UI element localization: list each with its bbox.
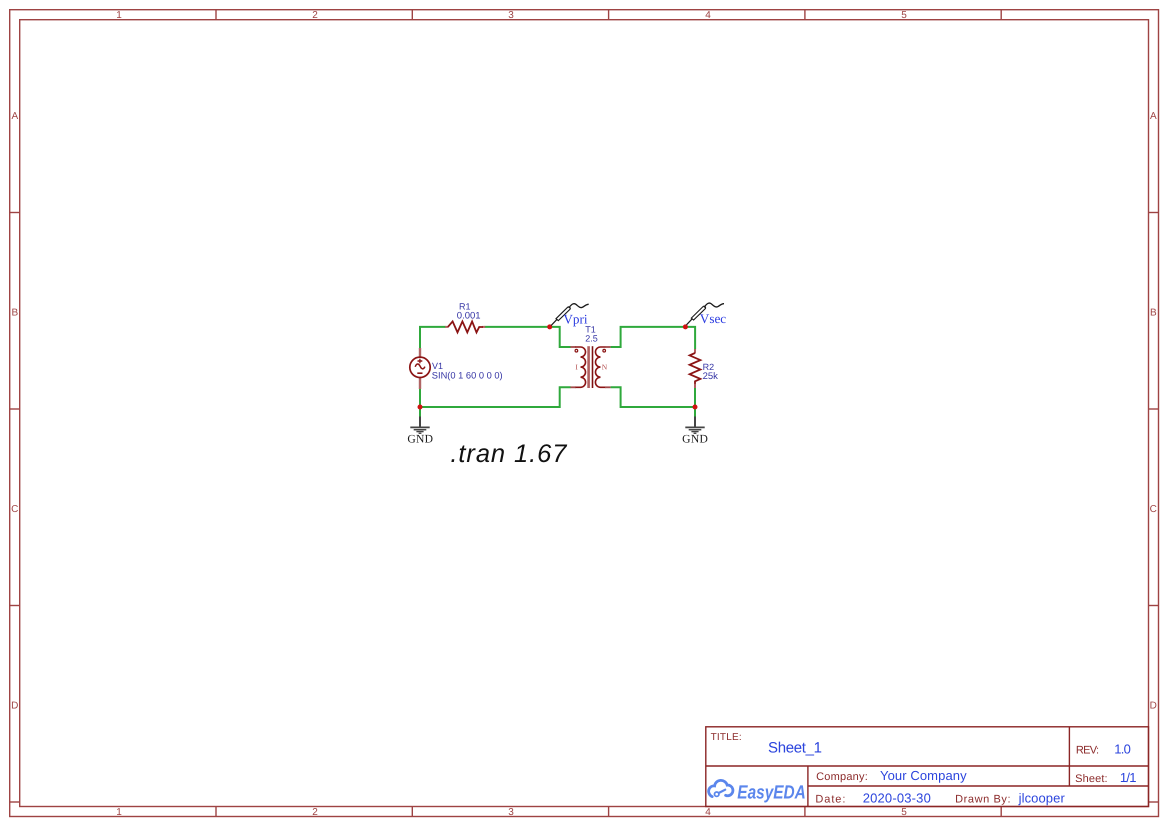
wire bottom left: ground node to T1 primary bottom pin [420, 387, 571, 407]
title block [706, 727, 1149, 807]
svg-text:REV:: REV: [1076, 744, 1099, 756]
svg-text:A: A [11, 111, 18, 122]
svg-text:C: C [1150, 504, 1157, 515]
T1 secondary pins [605, 346, 611, 348]
ground symbol left (GND) [410, 417, 429, 434]
EasyEDA logo [709, 780, 733, 796]
T1 primary phase dot [575, 349, 578, 352]
svg-text:B: B [11, 308, 18, 319]
resistor R1 [445, 321, 485, 332]
svg-text:25k: 25k [703, 371, 719, 382]
svg-text:TITLE:: TITLE: [711, 732, 742, 743]
svg-text:N: N [602, 363, 608, 372]
svg-text:Drawn By:: Drawn By: [955, 793, 1010, 805]
svg-text:Vsec: Vsec [700, 311, 727, 326]
svg-text:1/1: 1/1 [1120, 770, 1137, 785]
svg-text:Sheet:: Sheet: [1075, 773, 1108, 785]
wire R1 right to T1 primary top pin, through node Vpri [485, 327, 571, 347]
svg-text:.tran 1.67: .tran 1.67 [450, 440, 567, 468]
svg-text:Your Company: Your Company [880, 768, 967, 783]
T1 secondary winding [595, 347, 605, 387]
svg-text:A: A [1150, 111, 1157, 122]
svg-text:GND: GND [407, 432, 433, 445]
svg-text:1.0: 1.0 [1114, 741, 1131, 756]
voltage probe Vsec [687, 303, 725, 325]
svg-text:2: 2 [312, 10, 318, 21]
svg-text:1: 1 [116, 807, 122, 818]
junction node Vpri [547, 324, 552, 329]
T1 secondary phase dot [603, 349, 606, 352]
svg-text:jlcooper: jlcooper [1018, 790, 1066, 805]
svg-text:2: 2 [312, 807, 318, 818]
ground symbol right (GND) [685, 417, 704, 434]
svg-text:D: D [1150, 701, 1157, 712]
resistor R2 [690, 349, 701, 388]
wire T1 secondary top pin to R2 top, through node Vsec [611, 327, 696, 350]
wire V1 bottom to ground node [419, 389, 421, 407]
svg-text:4: 4 [705, 807, 711, 818]
svg-text:0.001: 0.001 [457, 311, 481, 322]
svg-text:3: 3 [508, 807, 514, 818]
svg-text:1: 1 [116, 10, 122, 21]
svg-text:Date:: Date: [815, 793, 845, 805]
svg-text:Company:: Company: [816, 771, 868, 783]
T1 primary pins [570, 346, 576, 348]
svg-text:5: 5 [901, 807, 907, 818]
wire V1 top to R1 left [420, 327, 446, 349]
voltage probe Vpri [551, 304, 589, 326]
svg-text:EasyEDA: EasyEDA [737, 783, 806, 804]
svg-text:B: B [1150, 308, 1157, 319]
svg-text:Sheet_1: Sheet_1 [768, 740, 822, 757]
wire R2 bottom to ground node [694, 388, 696, 407]
svg-text:D: D [11, 701, 18, 712]
svg-text:3: 3 [508, 10, 514, 21]
wire left ground stub [419, 407, 421, 417]
svg-text:2020-03-30: 2020-03-30 [863, 790, 931, 805]
wire T1 secondary bottom pin to bottom right ground node [611, 387, 695, 407]
voltage source V1 [410, 348, 430, 389]
svg-text:Vpri: Vpri [563, 312, 588, 327]
svg-text:V1: V1 [432, 361, 443, 371]
transformer T1 [570, 346, 610, 388]
junction node gnd-left [418, 405, 423, 410]
svg-text:4: 4 [705, 10, 711, 21]
svg-text:2.5: 2.5 [585, 333, 598, 343]
junction node Vsec [683, 324, 688, 329]
T1 primary winding [576, 347, 586, 387]
junction node gnd-right [693, 405, 698, 410]
wire right ground stub [694, 407, 696, 417]
svg-text:C: C [11, 504, 18, 515]
svg-text:SIN(0 1 60 0 0 0): SIN(0 1 60 0 0 0) [432, 370, 503, 380]
T1 core lines [587, 346, 590, 388]
svg-text:5: 5 [901, 10, 907, 21]
svg-text:GND: GND [682, 432, 708, 445]
